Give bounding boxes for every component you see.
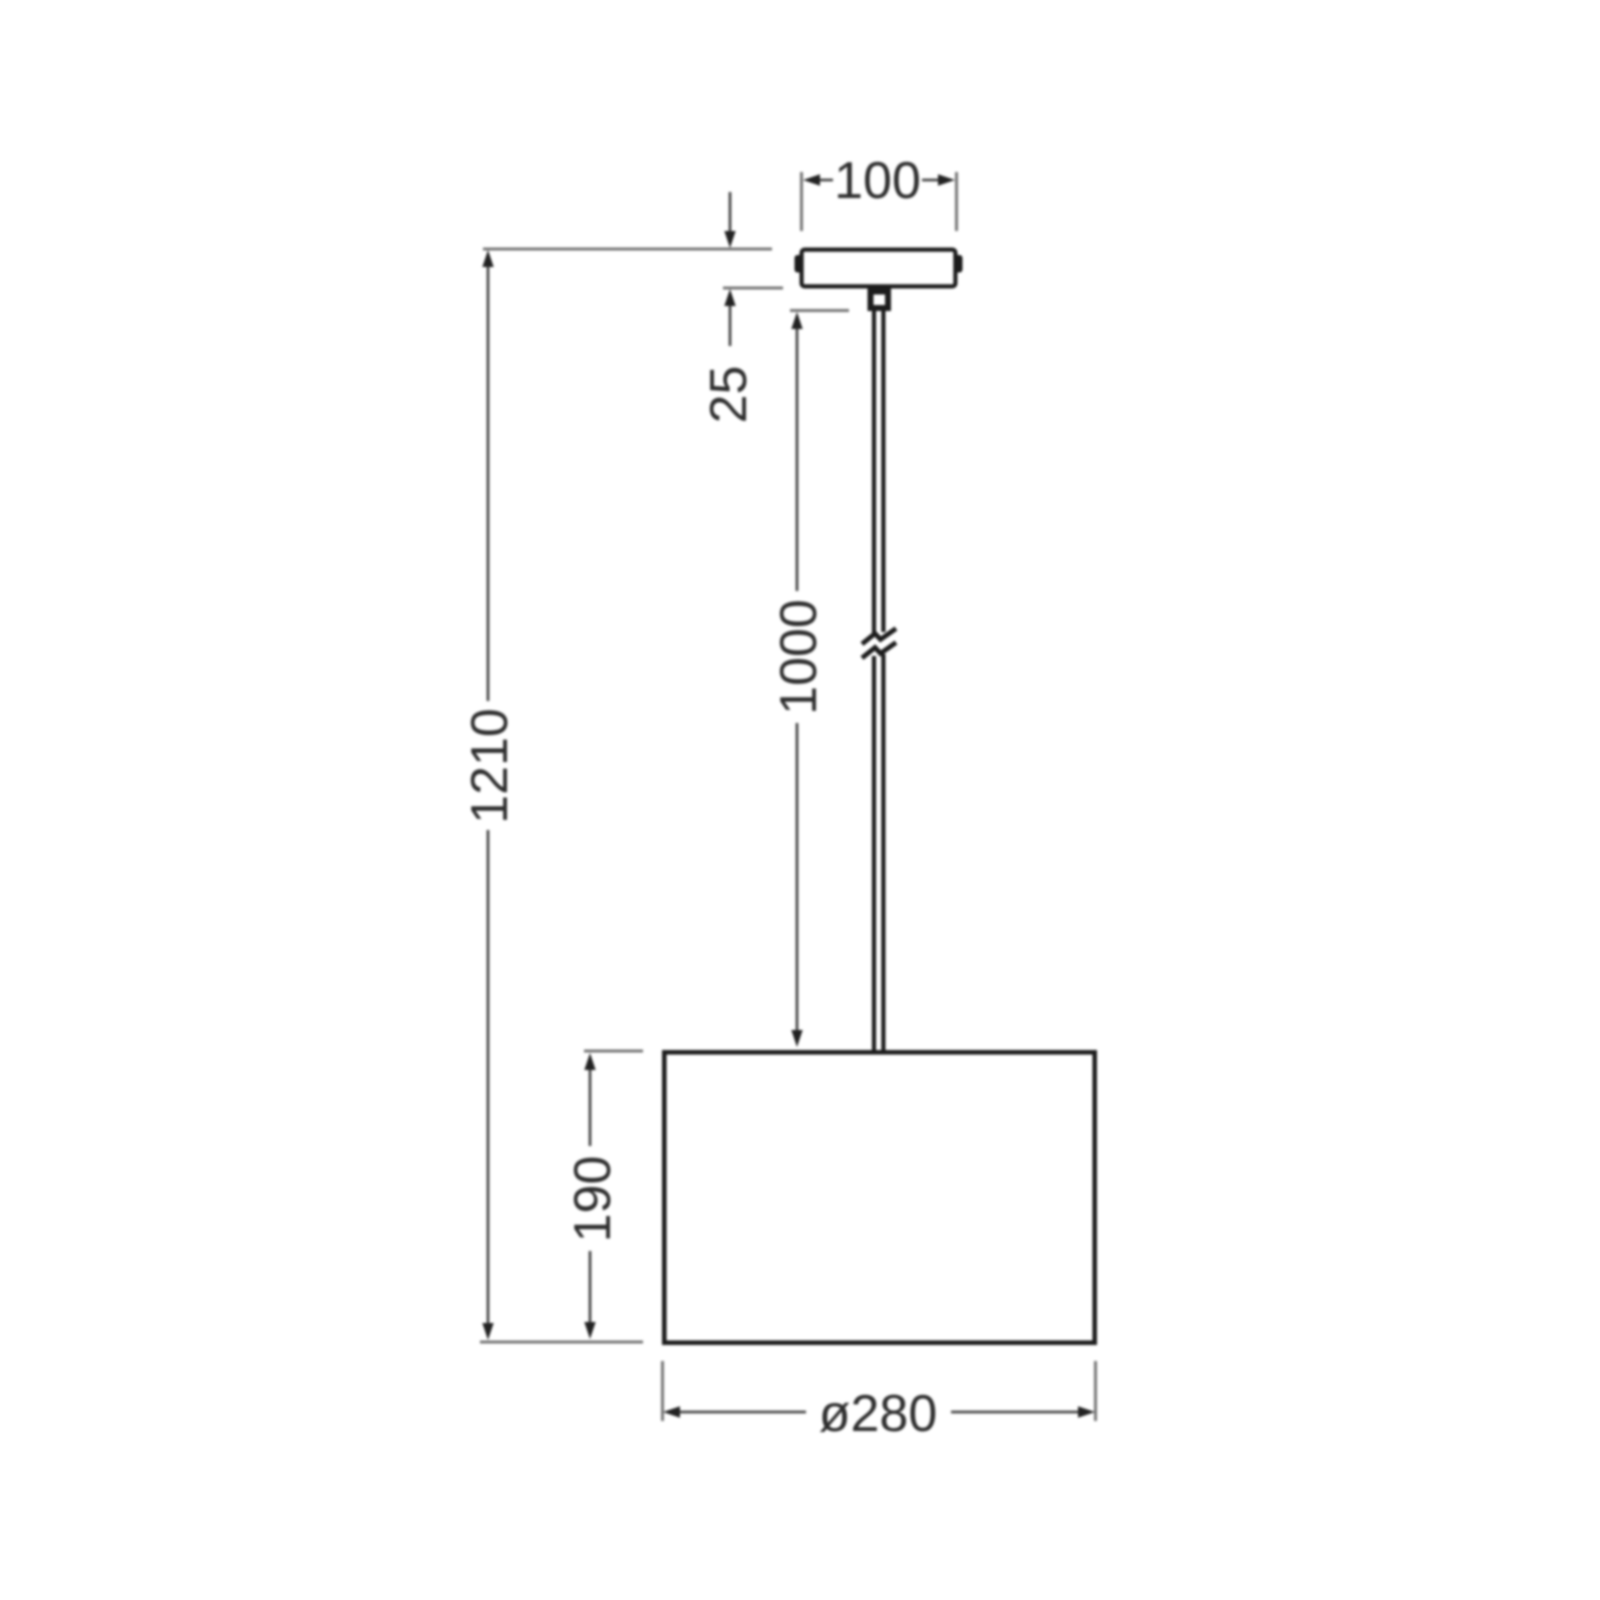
canopy end cap right: [955, 255, 963, 273]
svg-text:25: 25: [700, 366, 758, 424]
extension line 100-dim right: [955, 172, 958, 231]
extension line 190-dim top (shade top level): [584, 1050, 643, 1053]
svg-text:1000: 1000: [770, 599, 828, 715]
dimension 1000: vertical line with arrows, broken for text: [796, 325, 799, 591]
extension line 1000-dim top (connector bottom level): [790, 309, 849, 312]
dimension 25: outside arrows: [729, 192, 732, 234]
svg-text:190: 190: [564, 1156, 622, 1243]
extension line bottom (shade bottom level, shared by 1210 and 190): [480, 1341, 643, 1344]
svg-text:100: 100: [834, 152, 921, 210]
svg-text:1210: 1210: [461, 708, 519, 824]
svg-text:ø280: ø280: [819, 1385, 938, 1443]
cord upper segment: [872, 311, 876, 634]
extension line 25-dim bottom (canopy bottom level): [723, 287, 783, 290]
extension line 280-dim right: [1094, 1361, 1097, 1421]
dimension 280: line + arrows: [678, 1411, 806, 1414]
connector block: [871, 292, 889, 309]
lampshade: [664, 1052, 1094, 1342]
cord lower segment: [872, 656, 876, 1051]
canopy end cap left: [795, 255, 803, 273]
extension line 280-dim left: [661, 1361, 664, 1421]
dimension 1210: vertical line with arrows, broken for text: [487, 264, 490, 701]
dimension 190: vertical line with arrows, broken for text: [589, 1068, 592, 1146]
cable break symbol: [862, 629, 896, 645]
canopy: [802, 250, 956, 287]
extension line top (canopy top level, shared by 25 dim and 1210 dim): [483, 248, 772, 251]
dimension 100: line + arrows: [818, 179, 833, 182]
extension line 100-dim left: [800, 172, 803, 231]
